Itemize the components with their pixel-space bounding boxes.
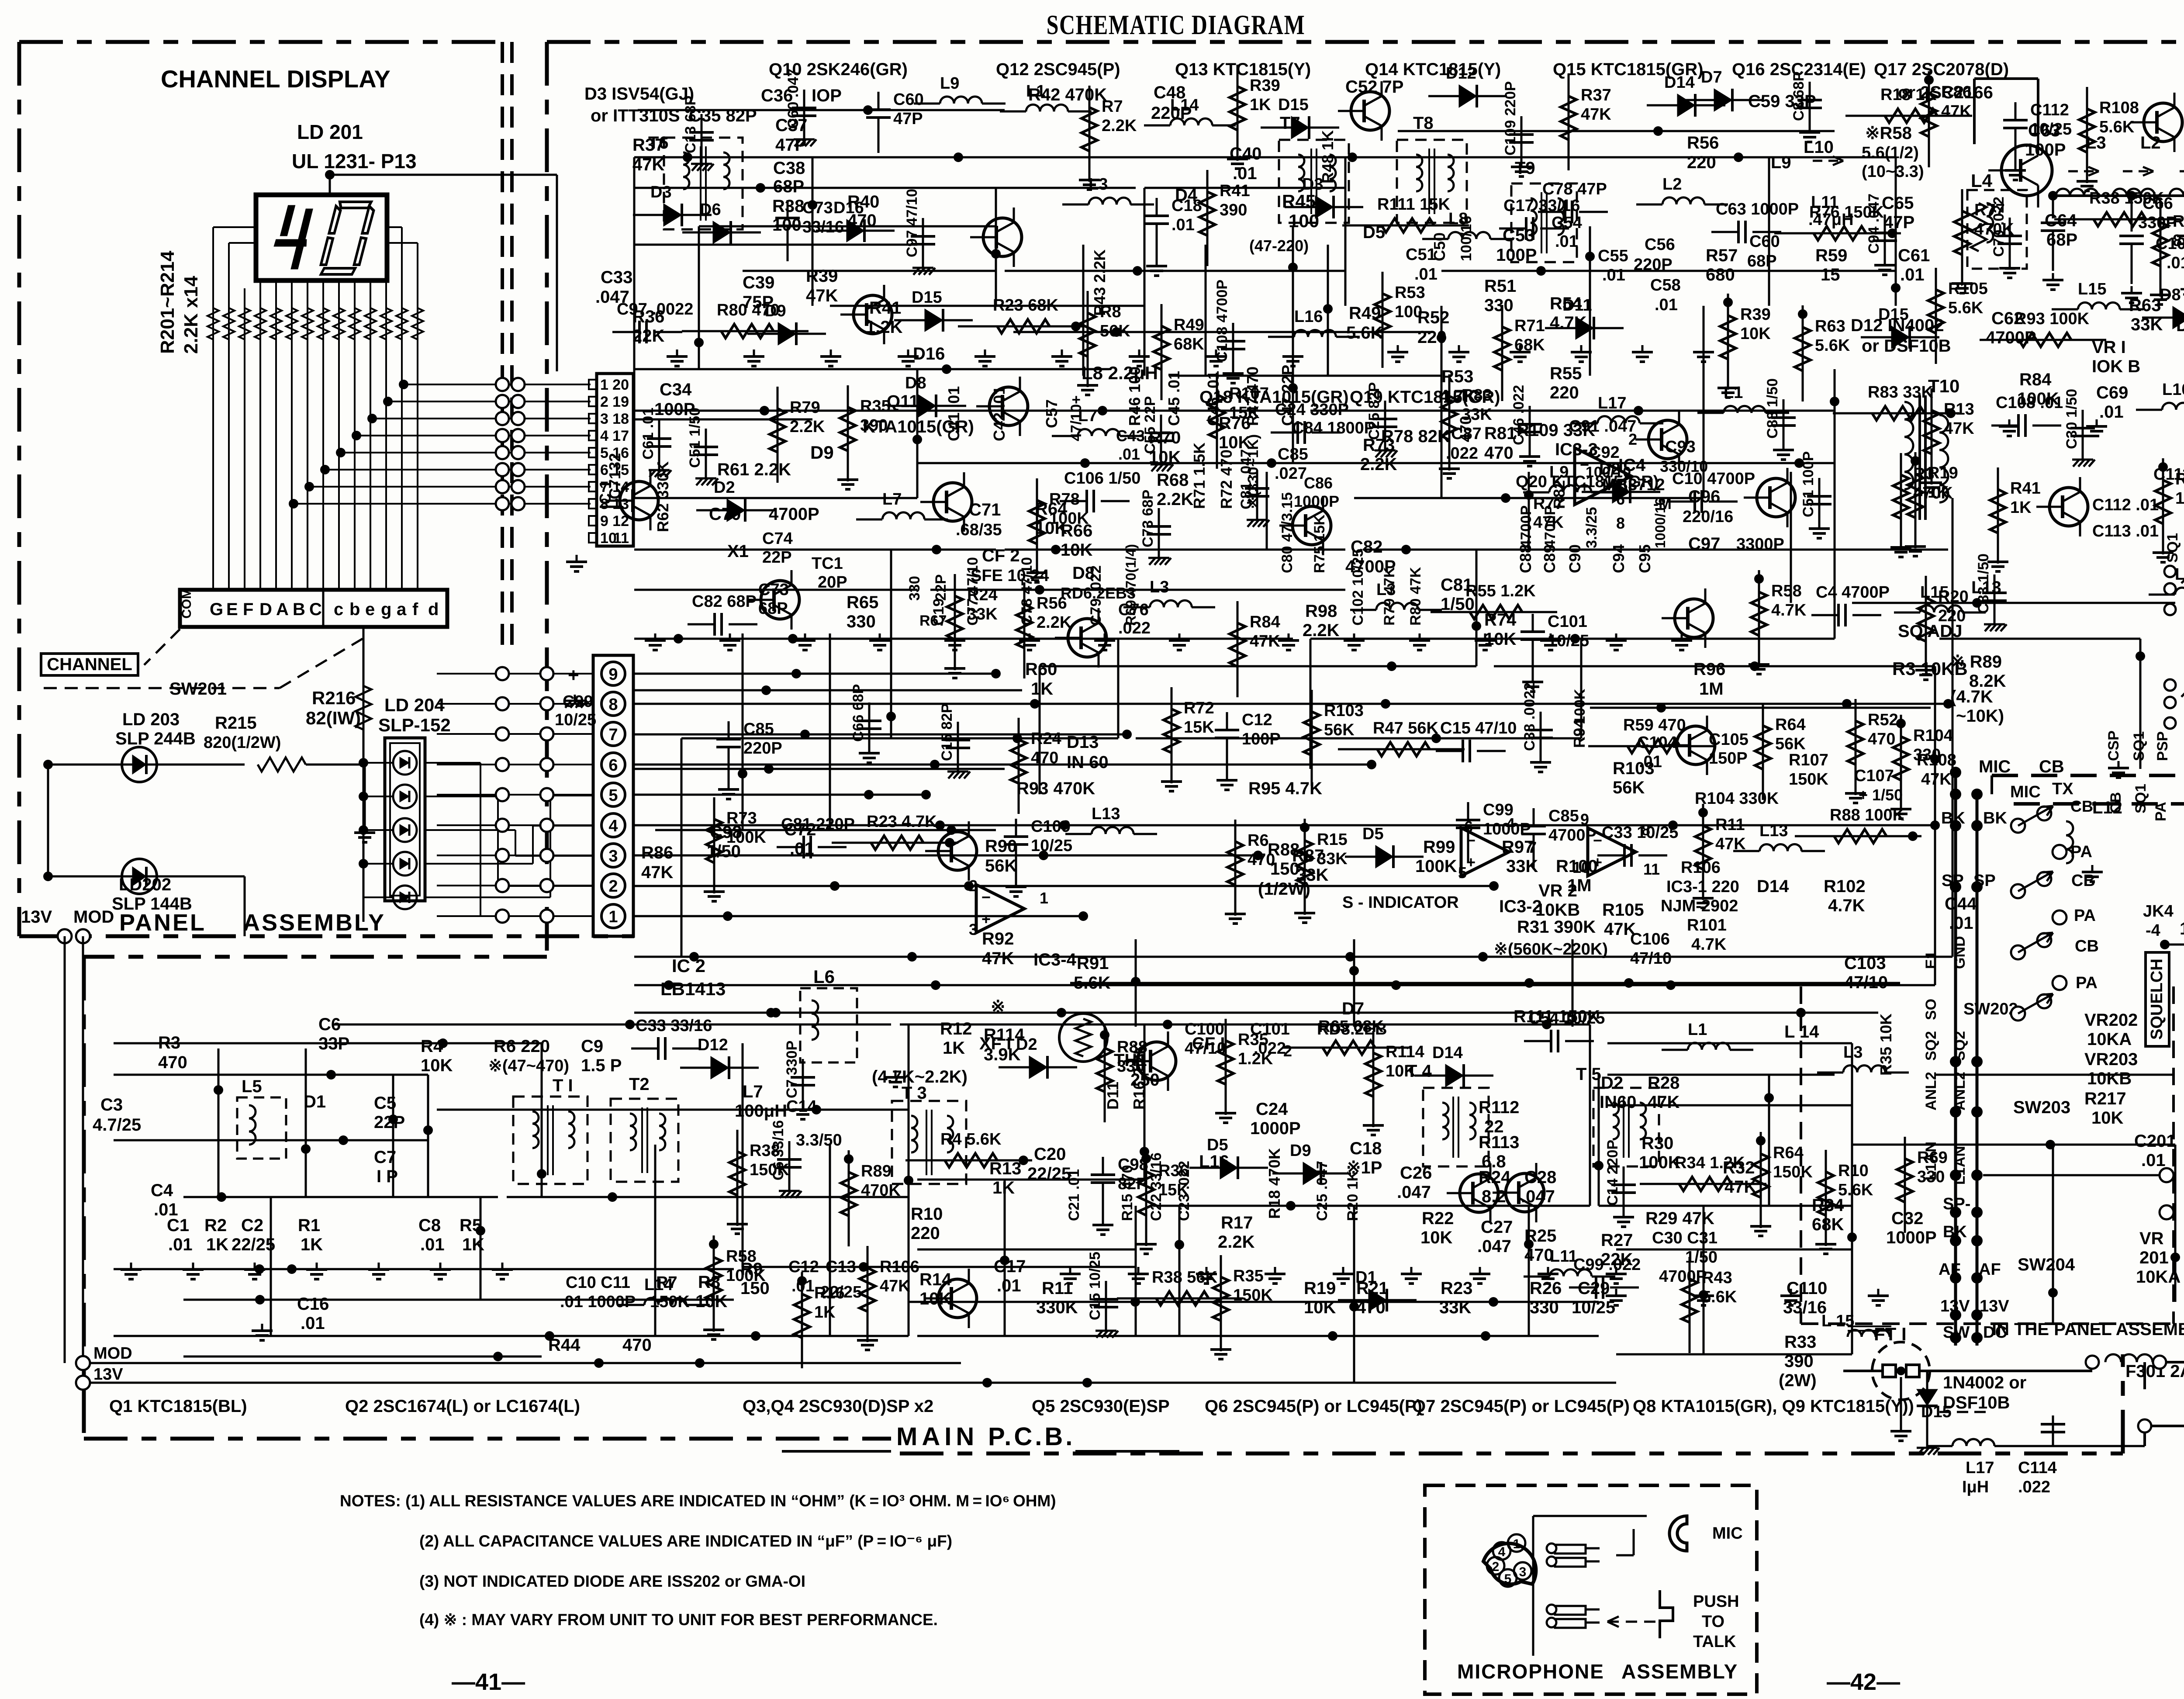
svg-text:10/25: 10/25 — [2030, 120, 2072, 138]
svg-text:c: c — [334, 600, 343, 619]
svg-text:+ 1/50: + 1/50 — [1859, 786, 1903, 804]
svg-text:1: 1 — [1040, 889, 1048, 907]
svg-text:VR: VR — [2139, 1229, 2164, 1248]
svg-text:.01: .01 — [168, 1235, 193, 1254]
svg-text:10K: 10K — [421, 1056, 453, 1075]
svg-text:NOTES: (1) ALL RESISTANCE: NOTES: (1) ALL RESISTANCE VALUES ARE IND… — [340, 1492, 1056, 1510]
svg-text:g: g — [381, 600, 391, 619]
svg-text:15K: 15K — [1158, 1181, 1189, 1199]
svg-text:C69: C69 — [2096, 383, 2128, 402]
svg-text:C107: C107 — [1854, 767, 1894, 785]
svg-text:2: 2 — [608, 877, 618, 896]
svg-text:3: 3 — [1519, 1565, 1527, 1579]
svg-text:R63: R63 — [1815, 317, 1845, 336]
svg-text:4700P: 4700P — [1518, 505, 1534, 548]
svg-text:f: f — [412, 600, 418, 619]
svg-text:L13: L13 — [1092, 805, 1120, 823]
svg-text:3: 3 — [969, 920, 978, 938]
svg-text:R103: R103 — [1324, 702, 1364, 720]
svg-text:470: 470 — [1868, 730, 1895, 748]
svg-text:(4) ※ : MAY VARY FROM UN: (4) ※ : MAY VARY FROM UNIT TO UNIT FOR B… — [419, 1611, 938, 1629]
svg-text:R26: R26 — [1530, 1279, 1562, 1298]
svg-text:R71: R71 — [1514, 317, 1545, 335]
svg-text:a: a — [397, 600, 407, 619]
svg-text:R78: R78 — [1049, 490, 1080, 509]
svg-text:13V: 13V — [93, 1365, 123, 1384]
svg-text:ASSEMBLY: ASSEMBLY — [1621, 1660, 1738, 1683]
svg-text:C60 .047: C60 .047 — [785, 69, 802, 129]
svg-text:4700P: 4700P — [769, 505, 819, 524]
svg-text:3: 3 — [608, 847, 618, 865]
svg-text:C85: C85 — [743, 720, 774, 738]
svg-text:D9: D9 — [1290, 1142, 1311, 1160]
svg-text:22P: 22P — [762, 548, 792, 567]
svg-text:1000/16: 1000/16 — [1652, 498, 1668, 548]
svg-text:E: E — [226, 600, 238, 619]
svg-text:C15 82P: C15 82P — [939, 703, 955, 761]
svg-text:201: 201 — [2139, 1248, 2169, 1267]
svg-text:R105: R105 — [1948, 280, 1988, 298]
svg-text:R53: R53 — [1441, 367, 1473, 386]
svg-text:C94 .047: C94 .047 — [1866, 194, 1882, 254]
svg-text:C114: C114 — [2018, 1459, 2057, 1477]
svg-text:R103: R103 — [2175, 470, 2184, 488]
svg-text:68P: 68P — [2046, 230, 2077, 249]
svg-text:※ R89: ※ R89 — [1950, 652, 2002, 671]
svg-text:L5: L5 — [242, 1077, 262, 1096]
svg-text:D9: D9 — [765, 302, 786, 320]
svg-text:2: 2 — [1492, 1560, 1500, 1574]
svg-text:R69: R69 — [1917, 1149, 1948, 1167]
svg-text:15K: 15K — [1184, 718, 1214, 737]
svg-text:R11: R11 — [1042, 1279, 1073, 1298]
svg-text:5.6K: 5.6K — [1838, 1181, 1873, 1199]
svg-text:R73: R73 — [726, 809, 757, 827]
svg-text:—42—: —42— — [1827, 1669, 1900, 1695]
svg-text:R37: R37 — [1581, 86, 1611, 104]
svg-text:C50: C50 — [1431, 232, 1448, 261]
svg-text:C27: C27 — [1481, 1218, 1513, 1237]
svg-text:8.2: 8.2 — [2173, 232, 2184, 250]
svg-text:(10~3.3): (10~3.3) — [1862, 163, 1924, 181]
svg-text:C8 68P: C8 68P — [1790, 72, 1807, 121]
svg-text:C10 4700P: C10 4700P — [1672, 470, 1755, 488]
svg-text:C3: C3 — [100, 1095, 123, 1114]
svg-text:56K: 56K — [1100, 322, 1130, 340]
svg-text:220: 220 — [911, 1224, 940, 1243]
svg-text:13V: 13V — [21, 907, 52, 927]
svg-text:56K: 56K — [1775, 735, 1806, 753]
svg-text:CHANNEL: CHANNEL — [47, 655, 132, 674]
svg-text:390: 390 — [1220, 201, 1247, 219]
svg-text:.022: .022 — [2018, 1478, 2050, 1496]
svg-text:C86: C86 — [1304, 474, 1333, 492]
svg-text:C97 .0022: C97 .0022 — [617, 300, 693, 318]
svg-text:L2: L2 — [1662, 175, 1682, 194]
svg-text:8: 8 — [608, 696, 618, 714]
svg-text:ANL2: ANL2 — [1923, 1072, 1939, 1111]
svg-text:R35: R35 — [1238, 1031, 1268, 1049]
svg-text:PA: PA — [2070, 843, 2092, 861]
svg-text:C92: C92 — [1589, 443, 1620, 462]
svg-text:100: 100 — [1395, 303, 1422, 321]
svg-text:R107: R107 — [1229, 384, 1269, 403]
svg-text:L14: L14 — [1170, 96, 1199, 114]
svg-text:D3: D3 — [650, 183, 672, 201]
svg-text:T8: T8 — [1413, 114, 1434, 133]
svg-text:4.7/25: 4.7/25 — [93, 1115, 141, 1135]
svg-text:3.3/25: 3.3/25 — [1583, 507, 1600, 548]
svg-text:TO: TO — [1702, 1612, 1724, 1631]
svg-text:47K: 47K — [880, 1277, 910, 1295]
svg-text:470: 470 — [1484, 443, 1514, 463]
svg-text:C73: C73 — [802, 199, 833, 217]
svg-text:C88 1/50: C88 1/50 — [1764, 378, 1781, 439]
svg-text:.01: .01 — [1171, 216, 1195, 234]
svg-text:+: + — [568, 664, 579, 686]
svg-text:A: A — [276, 600, 289, 619]
svg-text:3: 3 — [600, 411, 608, 427]
svg-text:L10: L10 — [1804, 138, 1834, 157]
svg-text:R96: R96 — [1693, 660, 1725, 679]
svg-text:VR 2: VR 2 — [1538, 881, 1577, 900]
svg-text:C61: C61 — [1898, 246, 1930, 265]
svg-text:D5: D5 — [1362, 825, 1384, 843]
svg-text:R56: R56 — [1037, 594, 1067, 612]
svg-text:P.C.B.: P.C.B. — [988, 1422, 1075, 1451]
svg-text:SCHEMATIC DIAGRAM: SCHEMATIC DIAGRAM — [1047, 10, 1306, 40]
svg-text:LD202: LD202 — [119, 875, 171, 894]
svg-text:TC1: TC1 — [812, 554, 843, 573]
svg-text:R4 5.6K: R4 5.6K — [940, 1130, 1002, 1149]
svg-text:R11: R11 — [1715, 816, 1745, 834]
svg-text:R216: R216 — [312, 688, 356, 708]
svg-text:C54 10/25: C54 10/25 — [1528, 1009, 1605, 1028]
svg-text:.01: .01 — [997, 1276, 1021, 1295]
svg-text:C46 .022: C46 .022 — [1510, 385, 1527, 445]
svg-text:R59 470: R59 470 — [1623, 716, 1686, 734]
svg-text:R93 470K: R93 470K — [1016, 779, 1095, 798]
svg-text:2.2K: 2.2K — [1218, 1232, 1255, 1252]
svg-text:T 5: T 5 — [1576, 1065, 1601, 1084]
svg-text:R72: R72 — [1184, 699, 1214, 717]
svg-text:470: 470 — [158, 1053, 187, 1072]
svg-text:CB: CB — [2039, 757, 2064, 776]
svg-text:47P: 47P — [893, 110, 923, 128]
svg-text:C58: C58 — [1650, 276, 1681, 294]
svg-text:R12: R12 — [940, 1019, 972, 1038]
svg-text:Q13 KTC1815(Y): Q13 KTC1815(Y) — [1175, 60, 1311, 79]
svg-text:R55: R55 — [1550, 364, 1582, 383]
svg-text:470: 470 — [622, 1336, 652, 1355]
svg-text:C61 .01: C61 .01 — [640, 408, 657, 460]
svg-text:19: 19 — [612, 394, 629, 410]
svg-text:R58: R58 — [726, 1247, 757, 1266]
svg-text:11: 11 — [1643, 860, 1660, 878]
svg-text:CB: CB — [2070, 797, 2093, 815]
svg-text:3.3/50: 3.3/50 — [796, 1131, 842, 1149]
svg-text:C55 22P: C55 22P — [1142, 396, 1158, 454]
svg-text:4700P: 4700P — [1548, 826, 1597, 844]
svg-text:C14 220P: C14 220P — [1604, 1140, 1621, 1206]
svg-text:R68: R68 — [1157, 471, 1189, 490]
svg-text:Q3,Q4 2SC930(D)SP x2: Q3,Q4 2SC930(D)SP x2 — [743, 1397, 933, 1416]
svg-text:.022: .022 — [1118, 619, 1151, 637]
svg-text:R31 390K: R31 390K — [1517, 917, 1596, 937]
svg-text:.01: .01 — [301, 1314, 325, 1333]
svg-text:COM: COM — [180, 588, 194, 619]
svg-text:L14: L14 — [644, 1276, 673, 1294]
svg-text:10/25: 10/25 — [1031, 837, 1072, 855]
svg-text:C83 1/50: C83 1/50 — [1975, 554, 1992, 614]
svg-text:330: 330 — [1917, 1168, 1945, 1186]
svg-text:R114: R114 — [1386, 1043, 1424, 1061]
svg-text:PA: PA — [2076, 974, 2098, 992]
svg-text:2.2K: 2.2K — [790, 418, 825, 436]
svg-text:R51: R51 — [1484, 277, 1516, 296]
svg-text:C14: C14 — [786, 1097, 817, 1116]
svg-text:R59: R59 — [1815, 246, 1847, 265]
svg-text:VR203: VR203 — [2084, 1050, 2138, 1069]
svg-text:MIC: MIC — [2010, 783, 2041, 801]
svg-text:C113 .01: C113 .01 — [2092, 522, 2159, 540]
svg-text:L7: L7 — [743, 1082, 763, 1101]
svg-text:(2W): (2W) — [1779, 1371, 1817, 1390]
svg-text:D12: D12 — [698, 1036, 728, 1054]
svg-text:R56: R56 — [1687, 133, 1719, 152]
svg-text:3300P: 3300P — [1736, 535, 1784, 554]
svg-text:C109 220P: C109 220P — [1502, 81, 1519, 156]
svg-text:47/10: 47/10 — [1630, 949, 1672, 968]
svg-text:IOP: IOP — [812, 86, 842, 105]
svg-text:2.2K: 2.2K — [1037, 613, 1072, 632]
svg-text:L17: L17 — [1966, 1459, 1994, 1477]
svg-text:L9: L9 — [1771, 153, 1791, 172]
svg-text:.01: .01 — [1900, 265, 1925, 284]
svg-text:C30 1/50: C30 1/50 — [2063, 389, 2080, 449]
svg-text:R80 47K: R80 47K — [1407, 567, 1424, 626]
svg-text:PSP: PSP — [2154, 731, 2171, 761]
svg-text:C21 .01: C21 .01 — [1066, 1169, 1082, 1221]
svg-text:C33 33/16: C33 33/16 — [636, 1017, 712, 1035]
svg-text:22P: 22P — [933, 574, 949, 601]
svg-text:R64: R64 — [1775, 716, 1806, 734]
svg-text:.022: .022 — [1446, 444, 1478, 463]
svg-text:D2: D2 — [1601, 1073, 1623, 1093]
svg-text:R82: R82 — [1550, 480, 1568, 509]
svg-text:150K: 150K — [1773, 1163, 1813, 1181]
svg-text:.01: .01 — [1602, 266, 1625, 284]
svg-text:D13: D13 — [1067, 733, 1099, 752]
svg-text:L16: L16 — [1294, 308, 1323, 326]
svg-text:R90: R90 — [985, 837, 1017, 856]
svg-text:C33: C33 — [601, 268, 632, 287]
svg-text:100K: 100K — [726, 828, 766, 847]
svg-text:SW202: SW202 — [1963, 1000, 2018, 1018]
svg-text:R64: R64 — [1773, 1144, 1804, 1162]
svg-text:R104: R104 — [1913, 727, 1953, 745]
svg-text:33K: 33K — [967, 605, 998, 623]
svg-text:C20: C20 — [1034, 1145, 1066, 1164]
svg-text:47K: 47K — [806, 286, 838, 305]
svg-text:C109: C109 — [1031, 817, 1071, 836]
svg-text:R46 100: R46 100 — [1126, 367, 1144, 426]
svg-text:MIC: MIC — [1979, 757, 2011, 776]
svg-text:470K: 470K — [861, 1181, 901, 1200]
svg-text:9: 9 — [600, 513, 608, 529]
svg-text:100P: 100P — [1242, 730, 1281, 748]
svg-text:※R58: ※R58 — [1865, 124, 1912, 143]
svg-text:.027: .027 — [1275, 464, 1307, 483]
svg-text:D12: D12 — [1446, 64, 1476, 83]
svg-text:R3: R3 — [1913, 465, 1935, 483]
svg-text:R105: R105 — [1602, 900, 1644, 920]
svg-text:4.7K: 4.7K — [1691, 935, 1727, 954]
svg-text:D14: D14 — [1432, 1044, 1463, 1062]
svg-text:C38 .0022: C38 .0022 — [1521, 682, 1538, 751]
svg-text:R98: R98 — [1305, 602, 1337, 621]
svg-text:D14: D14 — [1757, 877, 1789, 896]
svg-text:10K: 10K — [2091, 1108, 2123, 1128]
svg-text:13V: 13V — [1980, 1297, 2009, 1315]
svg-text:T2: T2 — [629, 1075, 650, 1094]
svg-text:C6 33/16: C6 33/16 — [770, 1120, 787, 1180]
svg-text:R2: R2 — [204, 1216, 227, 1235]
svg-text:68K: 68K — [1174, 335, 1204, 353]
svg-text:C1: C1 — [167, 1216, 189, 1235]
svg-text:C33 10/25: C33 10/25 — [1602, 824, 1678, 842]
svg-text:82(IW): 82(IW) — [306, 708, 361, 728]
svg-text:C32: C32 — [1891, 1209, 1923, 1228]
svg-text:33/16: 33/16 — [802, 218, 844, 236]
svg-text:.01: .01 — [1639, 753, 1662, 771]
svg-text:Q12 2SC945(P): Q12 2SC945(P) — [996, 60, 1120, 79]
svg-text:L1: L1 — [1026, 82, 1045, 100]
svg-text:R201~R214: R201~R214 — [157, 250, 178, 354]
svg-text:D3: D3 — [1302, 175, 1324, 194]
svg-text:.01: .01 — [2167, 254, 2184, 272]
svg-text:Q2 2SC1674(L) or LC1674(L): Q2 2SC1674(L) or LC1674(L) — [345, 1397, 580, 1416]
svg-text:IOK B: IOK B — [2092, 357, 2140, 376]
svg-text:SQ2: SQ2 — [1923, 1031, 1939, 1061]
svg-text:R49: R49 — [1174, 316, 1204, 334]
svg-text:1: 1 — [600, 377, 608, 393]
svg-text:.047: .047 — [1397, 1183, 1431, 1202]
svg-text:100K: 100K — [1415, 857, 1457, 876]
svg-text:−: − — [1580, 456, 1589, 474]
svg-text:F: F — [243, 600, 253, 619]
svg-text:D2: D2 — [714, 478, 735, 497]
svg-text:R58: R58 — [1771, 582, 1802, 600]
svg-text:4: 4 — [608, 817, 618, 835]
svg-text:SO: SO — [1923, 999, 1939, 1020]
svg-text:7: 7 — [608, 726, 618, 744]
svg-text:C78 47P: C78 47P — [1542, 180, 1607, 198]
svg-text:C106: C106 — [1630, 930, 1670, 948]
svg-text:C45 .01: C45 .01 — [1165, 371, 1183, 426]
svg-text:C78 47/10: C78 47/10 — [1019, 557, 1035, 626]
svg-text:C25 82P: C25 82P — [1366, 382, 1382, 440]
svg-text:R13: R13 — [1944, 400, 1974, 419]
svg-text:SQ1: SQ1 — [2132, 784, 2149, 813]
svg-text:R43: R43 — [1702, 1269, 1732, 1287]
svg-text:D7: D7 — [1701, 68, 1722, 87]
svg-text:CB: CB — [2071, 872, 2095, 890]
svg-text:—41—: —41— — [452, 1669, 525, 1695]
svg-text:2.2K: 2.2K — [1157, 490, 1194, 509]
svg-text:R101: R101 — [1687, 916, 1727, 934]
svg-text:CSP: CSP — [2105, 730, 2122, 761]
svg-text:C60: C60 — [1749, 232, 1780, 251]
svg-text:(4.7K: (4.7K — [1950, 687, 1993, 706]
svg-text:Q7 2SC945(P) or LC945(P): Q7 2SC945(P) or LC945(P) — [1412, 1397, 1630, 1416]
svg-text:C81 .047: C81 .047 — [1238, 449, 1254, 509]
svg-text:R7: R7 — [1102, 97, 1123, 116]
svg-text:47K: 47K — [1944, 419, 1974, 438]
svg-text:1: 1 — [608, 908, 618, 926]
svg-text:.01: .01 — [2141, 1151, 2166, 1170]
svg-text:L7: L7 — [882, 490, 902, 509]
svg-text:1K: 1K — [206, 1235, 228, 1254]
svg-text:470: 470 — [1031, 749, 1058, 767]
svg-text:18: 18 — [612, 411, 629, 427]
svg-text:220: 220 — [1687, 153, 1716, 172]
svg-text:1000P: 1000P — [2180, 919, 2184, 938]
svg-text:D8: D8 — [2160, 286, 2181, 304]
svg-text:C85: C85 — [1548, 807, 1579, 825]
svg-text:IμH: IμH — [1962, 1478, 1989, 1496]
svg-text:~10K): ~10K) — [1956, 706, 2004, 726]
svg-text:D15: D15 — [912, 288, 942, 307]
svg-text:2: 2 — [969, 877, 978, 895]
svg-text:R83 33K: R83 33K — [1868, 383, 1934, 401]
svg-text:MIC: MIC — [1712, 1524, 1743, 1543]
svg-text:22K: 22K — [632, 326, 664, 346]
svg-text:56K: 56K — [1613, 778, 1645, 797]
svg-text:VR202: VR202 — [2084, 1010, 2138, 1030]
svg-text:L3: L3 — [1376, 581, 1396, 599]
svg-text:33K: 33K — [1317, 850, 1348, 868]
svg-text:C71: C71 — [969, 500, 1001, 519]
svg-text:47P: 47P — [1883, 213, 1914, 232]
svg-text:C44: C44 — [1945, 894, 1977, 914]
svg-text:R41: R41 — [2010, 479, 2041, 498]
svg-text:R107: R107 — [1789, 751, 1828, 769]
svg-text:10K: 10K — [1386, 1062, 1416, 1080]
svg-text:D: D — [259, 600, 272, 619]
svg-text:680: 680 — [1706, 265, 1735, 284]
svg-text:TX: TX — [2052, 780, 2073, 798]
svg-text:47K: 47K — [641, 863, 673, 882]
svg-text:10K: 10K — [1420, 1228, 1452, 1247]
svg-text:L10: L10 — [2162, 381, 2184, 399]
svg-text:1K: 1K — [301, 1235, 323, 1254]
svg-text:R113: R113 — [1479, 1133, 1519, 1152]
svg-text:C74: C74 — [762, 529, 793, 548]
svg-text:R65: R65 — [847, 593, 878, 612]
svg-text:R33: R33 — [1784, 1332, 1816, 1352]
svg-text:R61 2.2K: R61 2.2K — [717, 460, 791, 479]
svg-text:Q11: Q11 — [887, 392, 919, 411]
svg-text:5.6(1/2): 5.6(1/2) — [1862, 144, 1919, 162]
svg-text:47K: 47K — [1250, 632, 1280, 651]
svg-text:Q14 KTC1815(Y): Q14 KTC1815(Y) — [1365, 60, 1501, 79]
svg-text:R39: R39 — [1740, 305, 1771, 324]
svg-text:4.7K: 4.7K — [1828, 896, 1865, 915]
svg-text:Q6 2SC945(P) or LC945(P): Q6 2SC945(P) or LC945(P) — [1205, 1397, 1422, 1416]
svg-text:17: 17 — [612, 428, 629, 444]
svg-text:C30 C31: C30 C31 — [1652, 1229, 1717, 1247]
